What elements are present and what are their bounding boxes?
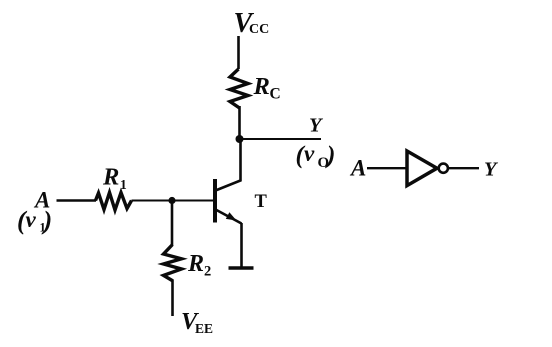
transistor T emitter with arrow	[216, 210, 242, 224]
transistor T base bar	[213, 179, 217, 223]
node junction (base/R2)	[168, 197, 175, 204]
wire emitter down	[240, 223, 243, 268]
wire VCC to RC	[237, 36, 240, 69]
wire R2 to VEE	[171, 280, 174, 316]
wire node to output Y	[240, 138, 322, 140]
svg-text:A: A	[349, 156, 366, 181]
svg-text:R: R	[187, 251, 204, 277]
svg-text:R: R	[253, 73, 270, 100]
svg-text:v: v	[26, 207, 37, 232]
wire node to R2	[171, 201, 174, 246]
svg-text:CC: CC	[249, 22, 269, 37]
svg-text:1: 1	[120, 177, 127, 192]
resistor R1	[96, 193, 132, 211]
svg-text:R: R	[102, 164, 119, 191]
svg-text:2: 2	[204, 264, 211, 280]
label RC	[253, 73, 281, 103]
ground	[229, 266, 254, 270]
svg-text:v: v	[304, 141, 315, 166]
label R2	[187, 251, 211, 280]
inverter bubble	[439, 164, 448, 173]
label (vo)	[296, 141, 336, 171]
wire gate output	[449, 167, 480, 169]
svg-text:C: C	[270, 86, 281, 103]
svg-text:): )	[42, 206, 53, 235]
label R1	[102, 164, 127, 193]
svg-text:T: T	[255, 192, 268, 212]
svg-text:): )	[325, 142, 335, 169]
svg-text:EE: EE	[195, 321, 213, 336]
inverter gate U1 triangle	[407, 151, 437, 186]
resistor R2	[164, 245, 182, 282]
label VCC	[234, 8, 270, 39]
wire RC to node	[238, 106, 241, 140]
wire input A to R1	[57, 199, 97, 202]
label VEE	[181, 308, 213, 336]
wire R1 to base	[132, 200, 215, 202]
wire collector	[216, 139, 241, 191]
resistor RC	[230, 69, 248, 108]
label (v1)	[17, 206, 52, 235]
node junction (collector/output)	[236, 135, 244, 143]
wire gate input	[367, 167, 407, 169]
